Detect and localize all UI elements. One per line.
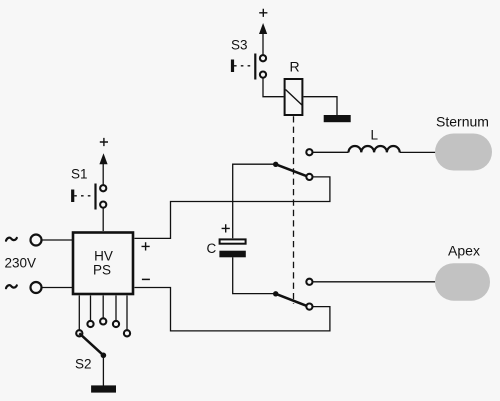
supply arrow above S3 xyxy=(259,23,267,34)
wire minus rail xyxy=(135,288,330,331)
relay contact top: NC contact xyxy=(306,174,312,180)
capacitor C xyxy=(219,239,245,257)
HV PS box U1 xyxy=(73,233,133,295)
wire capacitor top branch xyxy=(233,164,274,238)
relay contact bottom: blade xyxy=(276,294,307,306)
ground (relay) xyxy=(324,115,351,122)
wire plus rail xyxy=(135,177,330,239)
inductor L xyxy=(349,146,400,152)
sternum electrode pad xyxy=(435,134,492,171)
svg-text:230V: 230V xyxy=(5,256,37,271)
label + of C xyxy=(222,224,230,232)
mains terminal top xyxy=(31,235,42,246)
relay contact bottom: common node xyxy=(273,291,278,296)
selector S2: pin stubs xyxy=(79,296,127,330)
wire inductor to sternum pad xyxy=(400,151,436,153)
node + supply for S3 xyxy=(259,9,267,17)
svg-text:S2: S2 xyxy=(75,357,92,372)
wire S3 to relay coil xyxy=(263,78,284,97)
node + supply for S1 xyxy=(100,138,108,146)
svg-text:Apex: Apex xyxy=(448,243,480,259)
selector S2: pivot node xyxy=(101,353,107,359)
relay contact top: common node xyxy=(273,162,278,167)
relay contact bottom: NC contact xyxy=(306,304,312,310)
relay contact top: blade xyxy=(276,164,307,176)
wire relay to ground xyxy=(304,97,338,116)
label plus output xyxy=(142,242,150,250)
pushbutton S3 xyxy=(233,54,267,80)
wire terminal to box xyxy=(42,287,72,289)
svg-text:HV: HV xyxy=(94,249,113,264)
svg-text:C: C xyxy=(207,241,217,256)
wire capacitor bottom branch xyxy=(233,257,274,293)
svg-text:L: L xyxy=(371,128,379,143)
selector S2: contact circles xyxy=(76,318,130,336)
wire NO to inductor xyxy=(313,151,349,153)
ac symbol bottom xyxy=(6,285,17,288)
relay coil R xyxy=(285,79,303,115)
wire S1 to HV PS xyxy=(102,208,104,231)
wire NO to apex pad xyxy=(313,281,436,283)
wire S2 to ground xyxy=(102,355,104,385)
ac symbol top xyxy=(6,238,17,241)
pushbutton S1 xyxy=(73,184,107,210)
label minus output xyxy=(142,278,150,280)
relay contact bottom: NO contact to apex xyxy=(306,279,312,285)
selector S2: blade xyxy=(79,333,103,355)
svg-text:Sternum: Sternum xyxy=(436,114,489,130)
relay contact top: NO contact to L xyxy=(306,149,312,155)
mains terminal bottom xyxy=(31,282,42,293)
svg-text:PS: PS xyxy=(93,263,111,278)
apex electrode pad xyxy=(435,263,490,301)
wire terminal to box xyxy=(42,239,72,241)
svg-text:S1: S1 xyxy=(71,166,88,181)
svg-text:R: R xyxy=(290,59,300,75)
relay actuation dashed line xyxy=(293,116,295,304)
supply arrow above S1 xyxy=(99,153,107,164)
ground (S2) xyxy=(91,385,116,392)
svg-text:S3: S3 xyxy=(231,38,248,53)
